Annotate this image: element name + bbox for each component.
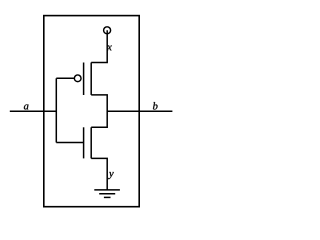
transistor Q1 PMOS gate bar xyxy=(83,63,85,96)
wire: x terminal down to PMOS drain lead xyxy=(91,30,107,62)
label x xyxy=(107,45,112,50)
wire: node b output xyxy=(107,110,172,112)
label b xyxy=(153,102,158,109)
transistor Q1 PMOS gate bubble xyxy=(74,75,81,82)
wire: NMOS gate lead xyxy=(56,142,83,144)
transistor Q2 NMOS channel bar xyxy=(90,127,92,158)
label a xyxy=(24,104,29,109)
wire: gate bus vertical xyxy=(55,78,57,142)
wire: NMOS source down to ground xyxy=(91,158,107,190)
label y xyxy=(108,172,114,179)
transistor Q2 NMOS gate bar xyxy=(83,127,85,158)
transistor Q1 PMOS channel bar xyxy=(90,63,92,95)
wire: node a input xyxy=(10,110,57,112)
port x terminal circle xyxy=(104,27,111,34)
wire: PMOS source down to NMOS drain xyxy=(91,95,107,127)
enclosure box xyxy=(44,16,139,207)
ground xyxy=(94,190,120,198)
wire: PMOS gate lead xyxy=(56,77,74,79)
